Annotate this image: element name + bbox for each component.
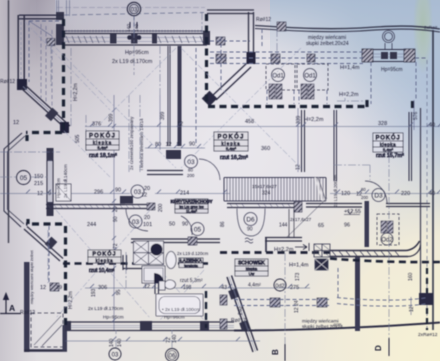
svg-text:96: 96 bbox=[344, 223, 350, 229]
svg-text:między wieńcami słupki żelbet: między wieńcami słupki żelbet bbox=[29, 250, 34, 304]
svg-text:Uw: Uw bbox=[249, 271, 255, 276]
svg-text:12: 12 bbox=[37, 191, 43, 197]
svg-text:173: 173 bbox=[295, 272, 301, 281]
svg-text:12 24: 12 24 bbox=[294, 300, 300, 313]
svg-text:rzut 16,2m²: rzut 16,2m² bbox=[220, 155, 248, 161]
svg-text:244: 244 bbox=[87, 222, 96, 228]
svg-text:+12,55: +12,55 bbox=[344, 209, 361, 215]
svg-text:9: 9 bbox=[48, 191, 51, 197]
svg-text:A: A bbox=[9, 303, 15, 313]
svg-text:40: 40 bbox=[429, 123, 435, 129]
svg-text:306: 306 bbox=[98, 285, 107, 291]
svg-text:...ocm: ...ocm bbox=[330, 322, 342, 327]
svg-text:Hp=96cm: Hp=96cm bbox=[164, 315, 185, 321]
svg-text:5,4m²: 5,4m² bbox=[226, 146, 237, 151]
svg-text:12: 12 bbox=[144, 284, 150, 290]
svg-text:19: 19 bbox=[56, 285, 62, 291]
svg-text:80: 80 bbox=[361, 187, 366, 192]
svg-text:Od1: Od1 bbox=[304, 74, 316, 80]
svg-text:12: 12 bbox=[13, 120, 19, 126]
svg-text:POKÓJ: POKÓJ bbox=[92, 250, 116, 258]
svg-text:458: 458 bbox=[245, 119, 254, 125]
svg-text:12: 12 bbox=[166, 142, 172, 148]
svg-text:12: 12 bbox=[409, 306, 415, 312]
svg-text:12: 12 bbox=[296, 164, 302, 170]
svg-text:H=2,2m: H=2,2m bbox=[304, 117, 324, 123]
svg-text:POKÓJ: POKÓJ bbox=[375, 133, 400, 141]
svg-text:rzut 15,7m²: rzut 15,7m² bbox=[376, 153, 404, 159]
svg-text:POKÓJ: POKÓJ bbox=[217, 132, 244, 140]
svg-text:505: 505 bbox=[75, 134, 81, 143]
svg-text:90: 90 bbox=[115, 188, 121, 194]
svg-text:2x czerwnik160 zespawany: 2x czerwnik160 zespawany bbox=[129, 116, 134, 170]
svg-text:Rø#12: Rø#12 bbox=[20, 310, 35, 316]
svg-text:144: 144 bbox=[279, 223, 288, 229]
svg-text:576: 576 bbox=[413, 111, 419, 120]
svg-text:200: 200 bbox=[361, 195, 369, 200]
svg-text:2x L19 dł.200cm: 2x L19 dł.200cm bbox=[333, 174, 338, 207]
svg-text:360: 360 bbox=[261, 146, 270, 152]
svg-text:150: 150 bbox=[34, 174, 43, 180]
svg-text:214: 214 bbox=[180, 191, 189, 197]
svg-text:słupki żelbet.20x24: słupki żelbet.20x24 bbox=[306, 41, 349, 47]
svg-text:11,4m²: 11,4m² bbox=[186, 209, 198, 213]
svg-text:Rø#12: Rø#12 bbox=[256, 17, 271, 23]
svg-text:160: 160 bbox=[408, 272, 414, 281]
svg-text:193: 193 bbox=[91, 288, 97, 297]
svg-text:Hp=95cm: Hp=95cm bbox=[381, 67, 403, 73]
svg-text:05: 05 bbox=[20, 175, 28, 182]
svg-text:Rø#12: Rø#12 bbox=[0, 79, 15, 85]
svg-text:198: 198 bbox=[183, 285, 192, 291]
svg-text:215: 215 bbox=[34, 181, 43, 187]
svg-text:rzut 18,1m²: rzut 18,1m² bbox=[89, 153, 117, 159]
svg-text:275: 275 bbox=[290, 285, 299, 291]
svg-text:12: 12 bbox=[40, 285, 46, 291]
svg-text:Hp=95cm: Hp=95cm bbox=[103, 315, 124, 321]
svg-text:5,4m²: 5,4m² bbox=[97, 145, 108, 150]
svg-text:0d2: 0d2 bbox=[275, 284, 284, 290]
svg-text:240: 240 bbox=[238, 306, 244, 315]
svg-text:86: 86 bbox=[220, 221, 226, 227]
svg-text:4,4m²: 4,4m² bbox=[248, 283, 261, 289]
svg-text:95: 95 bbox=[116, 289, 122, 295]
svg-text:65: 65 bbox=[318, 223, 324, 229]
svg-text:klepka: klepka bbox=[95, 258, 113, 263]
svg-text:399: 399 bbox=[160, 111, 166, 120]
svg-text:2xRø#12: 2xRø#12 bbox=[418, 332, 438, 338]
svg-text:D: D bbox=[374, 345, 383, 351]
svg-text:120: 120 bbox=[341, 191, 350, 197]
svg-text:220: 220 bbox=[401, 191, 410, 197]
svg-text:200: 200 bbox=[158, 203, 164, 212]
svg-text:80: 80 bbox=[188, 168, 193, 173]
svg-text:H=2,2m: H=2,2m bbox=[339, 92, 359, 98]
svg-text:90: 90 bbox=[113, 216, 119, 222]
svg-text:KORYTARZ/SCHODY: KORYTARZ/SCHODY bbox=[171, 199, 213, 204]
svg-text:H=2,2m: H=2,2m bbox=[73, 83, 79, 101]
svg-text:H=1,4m: H=1,4m bbox=[289, 263, 309, 269]
svg-text:ŁAZIENKA: ŁAZIENKA bbox=[180, 258, 203, 263]
svg-text:140: 140 bbox=[109, 338, 115, 347]
svg-text:• 2x L19 dł.100cm: • 2x L19 dł.100cm bbox=[162, 307, 200, 313]
svg-text:200: 200 bbox=[187, 173, 195, 178]
svg-text:376: 376 bbox=[92, 122, 101, 128]
svg-text:H=2,2m: H=2,2m bbox=[274, 247, 294, 253]
svg-text:Hp=95cm: Hp=95cm bbox=[125, 50, 149, 56]
svg-text:2x L19 dł.170cm: 2x L19 dł.170cm bbox=[88, 306, 123, 312]
svg-text:40: 40 bbox=[429, 191, 435, 197]
svg-text:lm l,m gres les: lm l,m gres les bbox=[179, 205, 204, 209]
svg-text:2x L19 dł.170cm: 2x L19 dł.170cm bbox=[112, 59, 153, 65]
svg-text:03: 03 bbox=[131, 8, 138, 14]
svg-text:Rø#12: Rø#12 bbox=[231, 318, 246, 324]
svg-text:328: 328 bbox=[378, 121, 387, 127]
svg-text:324: 324 bbox=[262, 191, 271, 197]
svg-text:20: 20 bbox=[144, 215, 150, 221]
svg-text:20: 20 bbox=[144, 186, 150, 192]
svg-text:2x L19 dł.140cm: 2x L19 dł.140cm bbox=[63, 164, 68, 198]
svg-text:90: 90 bbox=[189, 142, 195, 148]
svg-text:43: 43 bbox=[221, 285, 227, 291]
svg-text:2xRø#: 2xRø# bbox=[424, 25, 438, 30]
svg-text:Od1: Od1 bbox=[272, 74, 284, 80]
svg-text:03: 03 bbox=[187, 159, 195, 166]
svg-text:140: 140 bbox=[126, 24, 132, 32]
svg-text:15x17,6x27: 15x17,6x27 bbox=[252, 184, 277, 190]
svg-text:296: 296 bbox=[94, 190, 103, 196]
svg-text:339: 339 bbox=[296, 115, 302, 124]
svg-text:B: B bbox=[271, 349, 280, 355]
svg-text:H=2,2m: H=2,2m bbox=[68, 291, 74, 309]
svg-text:2x L19 d.120cm: 2x L19 d.120cm bbox=[177, 251, 209, 256]
svg-text:rzut 10,4m²: rzut 10,4m² bbox=[89, 268, 115, 274]
svg-text:Od2: Od2 bbox=[381, 238, 393, 244]
svg-text:5,4m²: 5,4m² bbox=[383, 147, 394, 152]
svg-text:90: 90 bbox=[247, 227, 253, 233]
svg-text:140: 140 bbox=[172, 334, 178, 343]
svg-text:D3: D3 bbox=[374, 193, 383, 200]
svg-text:20: 20 bbox=[113, 206, 119, 212]
svg-text:03: 03 bbox=[112, 353, 119, 359]
svg-text:101: 101 bbox=[143, 222, 152, 228]
svg-text:i kielnica drewniano 14x14: i kielnica drewniano 14x14 bbox=[139, 118, 144, 170]
svg-text:rzut 5,3m²: rzut 5,3m² bbox=[180, 278, 203, 284]
svg-text:H=1,4m: H=1,4m bbox=[340, 65, 360, 71]
svg-text:05: 05 bbox=[194, 227, 202, 234]
svg-text:140: 140 bbox=[117, 338, 123, 347]
svg-text:2x17,6x27: 2x17,6x27 bbox=[290, 217, 312, 222]
svg-text:Hp=90cm: Hp=90cm bbox=[56, 178, 61, 198]
svg-text:06: 06 bbox=[169, 354, 176, 360]
svg-text:POKÓJ: POKÓJ bbox=[89, 131, 116, 139]
svg-text:12: 12 bbox=[177, 122, 183, 128]
svg-text:12: 12 bbox=[141, 193, 147, 199]
svg-text:90: 90 bbox=[182, 222, 188, 228]
svg-text:terakota: terakota bbox=[184, 264, 199, 268]
svg-text:72: 72 bbox=[113, 243, 119, 249]
svg-text:D6: D6 bbox=[246, 217, 255, 224]
svg-text:399: 399 bbox=[109, 113, 115, 122]
svg-text:50: 50 bbox=[169, 222, 175, 228]
